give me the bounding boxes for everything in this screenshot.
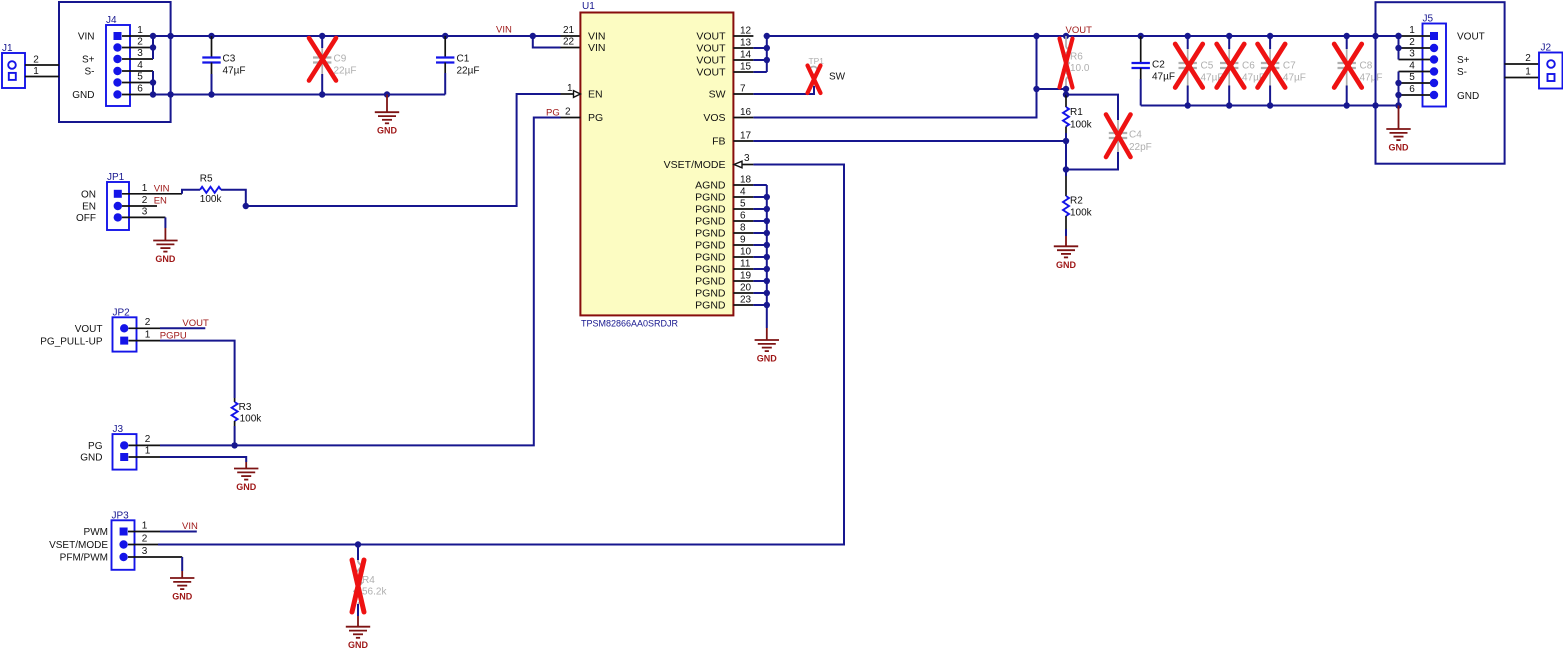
wire AGND/PGND tie to ground	[766, 185, 768, 328]
svg-text:VSET/MODE: VSET/MODE	[49, 540, 108, 551]
resistor R1	[1065, 95, 1067, 107]
capacitor C9 (DNP)	[321, 36, 323, 48]
U1 pin 16 VOS line	[733, 117, 753, 119]
svg-text:VOUT: VOUT	[696, 55, 726, 67]
wire J4 sense S+ tie	[152, 36, 154, 59]
svg-text:15: 15	[740, 62, 752, 73]
J5 pin 5 line	[1399, 82, 1431, 84]
capacitor C8 (DNP)	[1346, 36, 1348, 49]
svg-text:22µF: 22µF	[334, 66, 357, 77]
output connector group box	[1376, 2, 1505, 164]
svg-text:100k: 100k	[1070, 208, 1093, 219]
svg-text:2: 2	[1409, 37, 1415, 48]
svg-text:VOUT: VOUT	[182, 318, 209, 329]
U1 pin 13 VOUT line	[733, 47, 753, 49]
wire J5 sense S- tie	[1398, 72, 1400, 106]
svg-text:3: 3	[142, 546, 148, 557]
U1 pin 17 FB line	[733, 140, 753, 142]
U1 pin 14 VOUT line	[733, 59, 753, 61]
JP3 pin 1 line	[128, 531, 160, 533]
ground JP1 pin3	[164, 217, 166, 228]
svg-text:2: 2	[145, 317, 151, 328]
svg-text:PGND: PGND	[695, 300, 726, 312]
wire J2 pin1	[1505, 77, 1539, 79]
svg-text:S+: S+	[82, 55, 95, 66]
svg-text:100k: 100k	[200, 194, 223, 205]
wire R6/R1 junction	[1065, 89, 1067, 95]
svg-text:3: 3	[1409, 49, 1415, 60]
wire VOUT pins tie	[766, 36, 768, 72]
svg-text:C9: C9	[334, 54, 347, 65]
resistor R5	[182, 190, 200, 194]
svg-text:R6: R6	[1070, 52, 1083, 63]
svg-text:FB: FB	[712, 136, 725, 148]
svg-text:PGND: PGND	[695, 216, 726, 228]
svg-text:PGND: PGND	[695, 240, 726, 252]
svg-text:22pF: 22pF	[1129, 142, 1152, 153]
svg-text:2: 2	[137, 37, 143, 48]
svg-text:C6: C6	[1242, 61, 1255, 72]
svg-text:1: 1	[145, 446, 151, 457]
svg-text:2: 2	[565, 107, 571, 118]
svg-text:GND: GND	[377, 126, 398, 136]
svg-text:8: 8	[740, 223, 746, 234]
svg-text:EN: EN	[82, 202, 96, 213]
svg-text:U1: U1	[582, 1, 595, 12]
svg-text:1: 1	[142, 183, 148, 194]
resistor R3	[160, 341, 235, 398]
svg-text:1: 1	[142, 521, 148, 532]
svg-text:C4: C4	[1129, 130, 1142, 141]
svg-text:PGND: PGND	[695, 288, 726, 300]
svg-text:PG_PULL-UP: PG_PULL-UP	[40, 336, 103, 347]
svg-text:VOUT: VOUT	[696, 31, 726, 43]
svg-text:VIN: VIN	[182, 521, 198, 532]
U1 pin 8 PGND line	[733, 232, 753, 234]
svg-text:C3: C3	[223, 54, 236, 65]
svg-text:R4: R4	[362, 575, 375, 586]
ground R4	[357, 616, 359, 627]
svg-text:10.0: 10.0	[1070, 63, 1090, 74]
U1 pin 12 VOUT line	[733, 35, 753, 37]
ground R2	[1065, 236, 1067, 246]
svg-text:16: 16	[740, 107, 752, 118]
svg-text:23: 23	[740, 295, 752, 306]
svg-text:AGND: AGND	[695, 180, 726, 192]
svg-text:14: 14	[740, 50, 752, 61]
U1 pin 2 PG line	[561, 117, 581, 119]
ground JP3 pin3	[181, 557, 183, 571]
svg-text:1: 1	[1409, 25, 1415, 36]
svg-text:2: 2	[33, 55, 39, 66]
svg-text:GND: GND	[172, 592, 193, 602]
wire J1 pin1 to box	[25, 76, 59, 78]
wire J4 sense S- tie	[152, 71, 154, 95]
JP1 pin 1 line	[122, 193, 182, 195]
JP1 pin 3 line	[122, 216, 165, 218]
svg-text:12: 12	[740, 26, 752, 37]
svg-text:VOUT: VOUT	[696, 43, 726, 55]
JP2 pin 2 line	[129, 327, 161, 329]
svg-text:GND: GND	[348, 640, 369, 650]
J5 pin 3 line	[1399, 59, 1431, 61]
svg-text:TPSM82866AA0SRDJR: TPSM82866AA0SRDJR	[581, 319, 679, 329]
JP3 pin 2 line	[128, 544, 158, 546]
wire VOUT stub at JP2	[160, 327, 205, 329]
svg-text:ON: ON	[81, 189, 96, 200]
svg-text:R5: R5	[200, 174, 213, 185]
svg-text:PGND: PGND	[695, 252, 726, 264]
U1 pin 1 EN input	[561, 93, 574, 95]
svg-text:R3: R3	[239, 402, 252, 413]
svg-text:7: 7	[740, 84, 746, 95]
wire EN net	[246, 94, 561, 206]
wire SW to TP1	[753, 86, 814, 94]
JP2 pin 1 line	[129, 340, 161, 342]
wire VIN to U1 pin 22	[533, 36, 561, 48]
svg-text:4: 4	[137, 60, 143, 71]
U1 pin 23 PGND line	[733, 304, 753, 306]
svg-text:C1: C1	[457, 54, 470, 65]
svg-text:1: 1	[567, 83, 573, 94]
J4 pin 6 line	[122, 94, 153, 96]
svg-text:PGND: PGND	[695, 192, 726, 204]
svg-text:21: 21	[563, 25, 575, 36]
wire FB net	[753, 140, 1066, 142]
wire J2 pin2	[1505, 63, 1539, 65]
U1 pin 5 PGND line	[733, 208, 753, 210]
svg-text:19: 19	[740, 271, 752, 282]
svg-text:6: 6	[740, 211, 746, 222]
J4 pin 4 line	[122, 70, 153, 72]
svg-text:PGND: PGND	[695, 264, 726, 276]
capacitor C7 (DNP)	[1269, 36, 1271, 49]
svg-text:VOUT: VOUT	[696, 67, 726, 79]
ground U1 PGND	[766, 328, 768, 340]
svg-text:VIN: VIN	[588, 42, 606, 54]
svg-text:GND: GND	[155, 254, 176, 264]
U1 pin 4 PGND line	[733, 196, 753, 198]
svg-text:PGND: PGND	[695, 204, 726, 216]
resistor R4 (DNP)	[357, 545, 359, 561]
svg-text:EN: EN	[588, 89, 603, 101]
svg-text:GND: GND	[80, 453, 102, 464]
svg-text:OFF: OFF	[76, 213, 96, 224]
svg-text:C2: C2	[1152, 60, 1165, 71]
J4 pin 5 line	[122, 82, 153, 84]
J4 pin 1 line	[122, 35, 153, 37]
svg-text:GND: GND	[757, 354, 778, 364]
svg-text:VIN: VIN	[496, 25, 512, 36]
svg-text:3: 3	[744, 153, 750, 164]
svg-text:20: 20	[740, 283, 752, 294]
svg-text:VIN: VIN	[154, 184, 170, 195]
svg-text:GND: GND	[1457, 91, 1479, 102]
node VSET/MODE to R4 junction	[355, 541, 361, 547]
U1 pin 19 PGND line	[733, 280, 753, 282]
svg-text:1: 1	[145, 329, 151, 340]
wire PG net	[160, 118, 561, 446]
svg-text:22: 22	[563, 37, 575, 48]
JP1 pin 2 line	[122, 205, 157, 207]
svg-text:1: 1	[33, 66, 39, 77]
wire J5 sense S+ tie	[1398, 36, 1400, 60]
svg-text:EN: EN	[154, 196, 167, 207]
U1 pin 6 PGND line	[733, 220, 753, 222]
input connector group box	[59, 2, 171, 122]
svg-text:PG: PG	[588, 112, 603, 124]
svg-text:22µF: 22µF	[457, 66, 480, 77]
J3 pin 1 line	[129, 456, 161, 458]
svg-text:17: 17	[740, 131, 752, 142]
svg-text:VOUT: VOUT	[1066, 25, 1093, 36]
svg-text:PG: PG	[88, 441, 103, 452]
svg-text:4: 4	[740, 187, 746, 198]
svg-text:GND: GND	[236, 482, 257, 492]
U1 pin 7 SW line	[733, 93, 753, 95]
capacitor C6 (DNP)	[1228, 36, 1230, 49]
wire VOS net	[753, 36, 1036, 118]
svg-text:11: 11	[740, 259, 751, 270]
svg-text:47µF: 47µF	[1360, 73, 1383, 84]
svg-text:3: 3	[142, 207, 148, 218]
wire VOUT bus	[767, 35, 1399, 37]
svg-text:S-: S-	[1457, 67, 1467, 78]
svg-text:SW: SW	[829, 72, 846, 83]
resistor R2	[1065, 170, 1067, 177]
svg-text:47µF: 47µF	[1152, 72, 1175, 83]
svg-text:2: 2	[142, 534, 148, 545]
svg-text:R1: R1	[1070, 107, 1083, 118]
svg-text:100k: 100k	[240, 414, 263, 425]
wire input ground rail	[153, 94, 445, 96]
svg-text:56.2k: 56.2k	[362, 587, 387, 598]
JP3 pin 3 line	[128, 556, 182, 558]
svg-text:PGND: PGND	[695, 276, 726, 288]
U1 pin 20 PGND line	[733, 292, 753, 294]
J4 pin 3 line	[122, 58, 153, 60]
capacitor C1	[444, 36, 446, 58]
svg-text:18: 18	[740, 175, 752, 186]
J5 pin 2 line	[1399, 47, 1431, 49]
svg-text:5: 5	[137, 72, 143, 83]
wire VIN stub at JP3	[160, 531, 197, 533]
svg-text:5: 5	[740, 199, 746, 210]
svg-text:47µF: 47µF	[1283, 73, 1306, 84]
svg-text:9: 9	[740, 235, 746, 246]
op-amp U1 TPSM82866AA0SRDJR body	[580, 13, 733, 316]
svg-text:VOUT: VOUT	[75, 324, 103, 335]
svg-text:S-: S-	[85, 67, 95, 78]
capacitor C3	[211, 36, 213, 58]
J3 pin 2 line	[129, 444, 161, 446]
svg-text:VOS: VOS	[703, 112, 725, 124]
J5 pin 1 line	[1399, 35, 1431, 37]
wire VIN top bus	[153, 35, 561, 37]
wire VSET/MODE net	[158, 165, 844, 545]
U1 pin 9 PGND line	[733, 244, 753, 246]
svg-text:PFM/PWM: PFM/PWM	[60, 553, 108, 564]
U1 pin 3 VSET/MODE line	[734, 161, 742, 168]
svg-text:100k: 100k	[1070, 120, 1093, 131]
svg-text:R2: R2	[1070, 196, 1083, 207]
U1 pin 11 PGND line	[733, 268, 753, 270]
svg-text:47µF: 47µF	[223, 66, 246, 77]
svg-text:5: 5	[1409, 72, 1415, 83]
wire J1 pin2 to box	[25, 64, 59, 66]
U1 pin 10 PGND line	[733, 256, 753, 258]
svg-text:VIN: VIN	[78, 32, 95, 43]
resistor R6 (DNP)	[1065, 36, 1067, 47]
svg-text:S+: S+	[1457, 55, 1470, 66]
U1 pin 22 line	[561, 47, 581, 49]
svg-text:2: 2	[1525, 53, 1531, 64]
svg-text:SW: SW	[709, 89, 726, 101]
svg-text:C7: C7	[1283, 61, 1296, 72]
U1 pin 15 VOUT line	[733, 71, 753, 73]
svg-text:13: 13	[740, 38, 752, 49]
J5 pin 6 line	[1399, 94, 1431, 96]
svg-text:C5: C5	[1201, 61, 1214, 72]
J4 pin 2 line	[122, 47, 153, 49]
wire output ground rail	[1141, 105, 1399, 107]
test point TP1 (DNP)	[810, 67, 818, 75]
capacitor C2	[1140, 36, 1142, 63]
svg-text:GND: GND	[72, 90, 94, 101]
svg-text:GND: GND	[1056, 260, 1077, 270]
svg-text:3: 3	[137, 48, 143, 59]
svg-text:C8: C8	[1360, 61, 1373, 72]
svg-text:PGND: PGND	[695, 228, 726, 240]
U1 pin 18 AGND line	[733, 184, 753, 186]
ground J5	[1398, 106, 1400, 130]
ground J3 pin1	[160, 457, 246, 462]
svg-text:6: 6	[137, 84, 143, 95]
capacitor C4 (DNP) feedforward branch	[1066, 95, 1118, 120]
J5 pin 4 line	[1399, 71, 1431, 73]
svg-text:GND: GND	[1389, 143, 1410, 153]
svg-text:VOUT: VOUT	[1457, 32, 1485, 43]
svg-text:VIN: VIN	[588, 31, 606, 43]
svg-text:4: 4	[1409, 61, 1415, 72]
svg-text:VSET/MODE: VSET/MODE	[664, 159, 726, 171]
svg-text:1: 1	[137, 25, 143, 36]
wire VOS to R6	[1037, 88, 1067, 90]
svg-text:1: 1	[1525, 67, 1531, 78]
U1 pin 21 line	[561, 35, 581, 37]
svg-text:2: 2	[145, 434, 151, 445]
svg-text:2: 2	[142, 195, 148, 206]
ground input rail	[386, 95, 388, 113]
capacitor C5 (DNP)	[1187, 36, 1189, 49]
svg-text:PWM: PWM	[84, 527, 108, 538]
svg-text:10: 10	[740, 247, 752, 258]
svg-text:6: 6	[1409, 84, 1415, 95]
